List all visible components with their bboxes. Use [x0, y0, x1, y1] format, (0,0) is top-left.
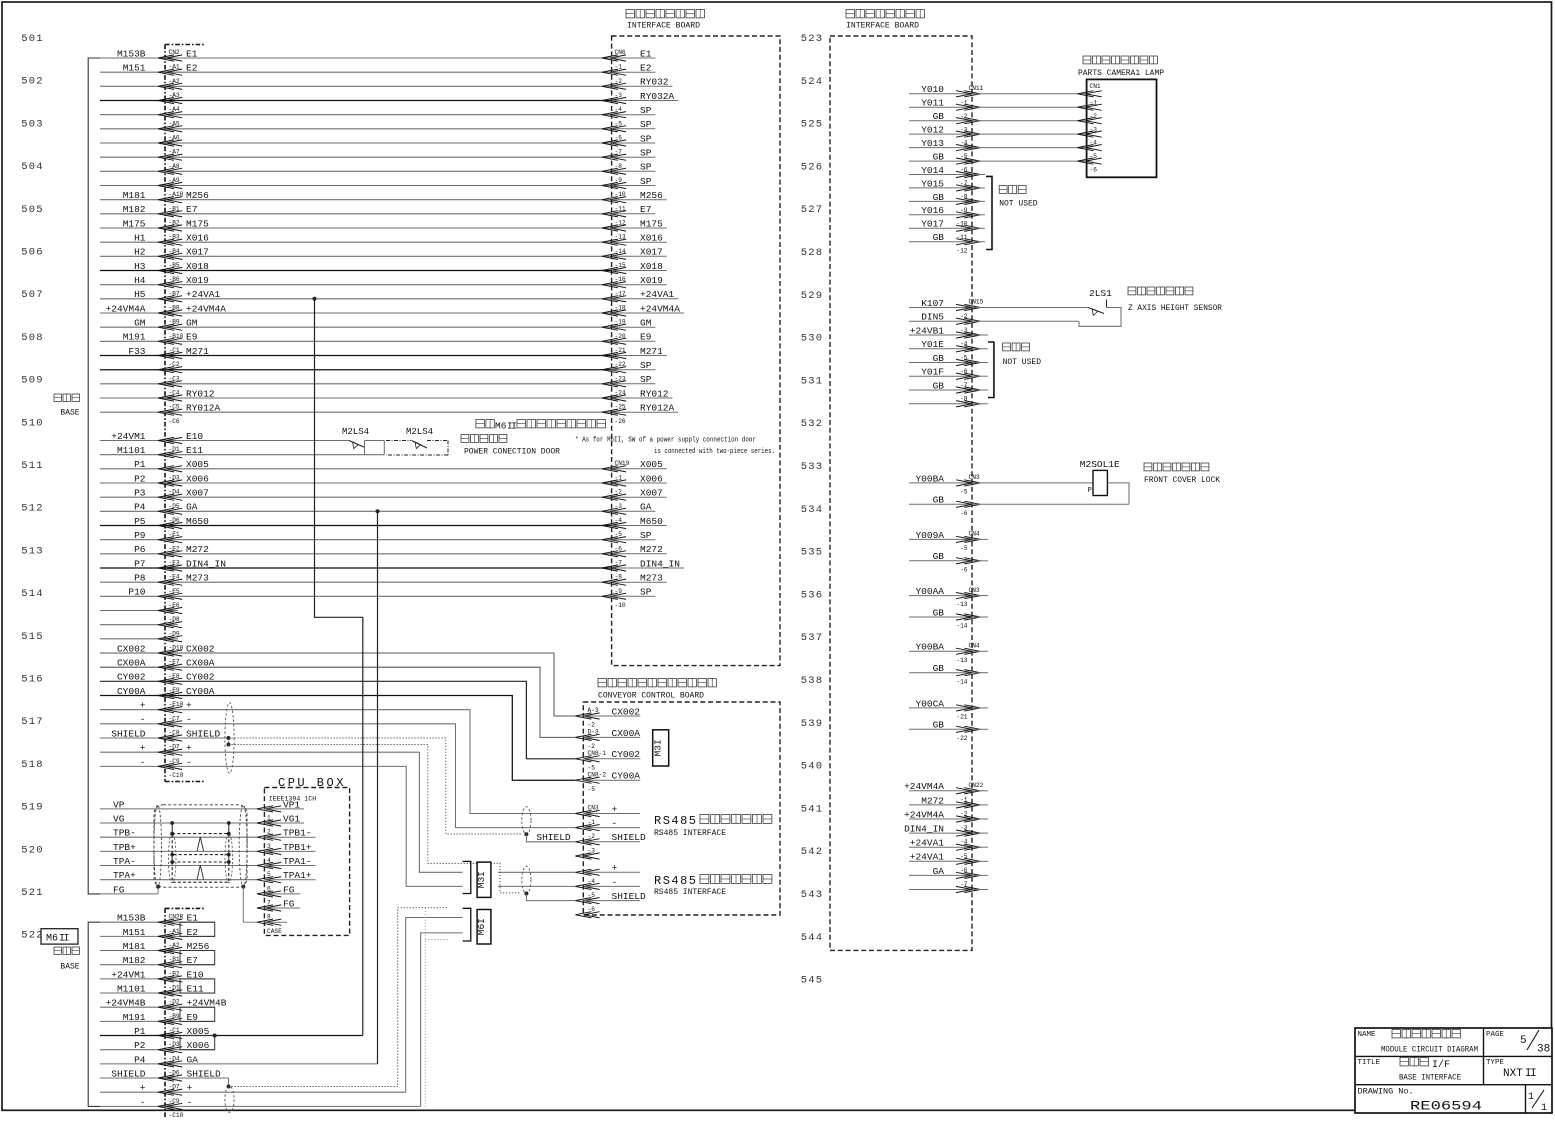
- svg-text:PAGE: PAGE: [1486, 1031, 1505, 1039]
- svg-text:1: 1: [267, 815, 271, 822]
- svg-text:+: +: [186, 743, 192, 754]
- svg-text:-26: -26: [615, 418, 626, 425]
- wire row 72: SHIELD CN2R-D7 SHIELD: [100, 1068, 229, 1090]
- wire row 69: P1 CN2R-D3 X005: [100, 1026, 363, 1048]
- twisted-pair capsule left: [154, 805, 162, 887]
- svg-text:P5: P5: [134, 516, 146, 527]
- svg-text:* As for M6II, SW of a power s: * As for M6II, SW of a power supply conn…: [575, 437, 756, 445]
- wire row 28: M1101 CN2-D1 / E11 return from door switch: [100, 445, 384, 458]
- svg-text:510: 510: [21, 417, 44, 429]
- shield tap verticals and dots: [170, 821, 230, 864]
- wire bus bracket (lower M6II base block): [88, 922, 100, 1106]
- twisted-pair capsule right: [239, 805, 247, 887]
- svg-text:502: 502: [21, 76, 44, 88]
- wire row 7: (nc) CN2-A8 -> CN6-8 SP: [100, 148, 655, 170]
- wire CX002: CN2 row 42 routed to conveyor board A-3: [100, 643, 575, 716]
- conveyor board pin A-3 (CX002): [575, 706, 640, 728]
- switch M2LS4 (second door switch for M6II, dash-dot): [386, 427, 448, 455]
- svg-text:-6: -6: [960, 566, 968, 573]
- wire row 21: F33 CN2-C2 -> CN6-22 M271: [100, 346, 667, 368]
- wire row 68: M191 CN2R-C1 E9: [100, 1012, 215, 1034]
- svg-text:P6: P6: [134, 544, 146, 555]
- svg-text:GB: GB: [933, 192, 945, 203]
- CPU pin 7 FG stub: [257, 898, 300, 911]
- wire row 6: (nc) CN2-A7 -> CN6-7 SP: [100, 133, 655, 155]
- wire IEEE1394 TPA- -> CPU pin 4: TPA1-: [100, 856, 316, 869]
- svg-text:GM: GM: [186, 318, 198, 329]
- svg-text:+: +: [140, 1083, 146, 1094]
- svg-text:P1: P1: [134, 1026, 146, 1037]
- twisted-pair shield capsule rows 46-50: [225, 703, 234, 774]
- svg-text:+24VA1: +24VA1: [910, 838, 945, 849]
- svg-text:-5: -5: [960, 489, 968, 496]
- svg-text:-2: -2: [588, 743, 596, 750]
- svg-text:507: 507: [21, 289, 44, 301]
- IEEE1394 cable shield dashed outline: [154, 805, 247, 887]
- svg-text:3: 3: [267, 843, 271, 850]
- svg-text:541: 541: [801, 803, 824, 815]
- svg-text:SHIELD: SHIELD: [111, 1068, 146, 1079]
- wire row 50: - (RS485-2 / M3I): [100, 757, 463, 887]
- svg-text:-5: -5: [588, 786, 596, 793]
- svg-text:-E7: -E7: [169, 659, 180, 666]
- svg-text:Y00CA: Y00CA: [915, 698, 944, 709]
- wire row 35: P6 CN2-E3 -> CN19-7 M272: [100, 544, 667, 566]
- svg-text:CN8-2: CN8-2: [588, 771, 607, 778]
- wire row 62: M151 CN2R-A2 E2: [100, 927, 215, 949]
- svg-text:M6: M6: [495, 421, 507, 432]
- svg-text:537: 537: [801, 632, 824, 644]
- svg-text:Y011: Y011: [921, 98, 944, 109]
- svg-text:P4: P4: [134, 1054, 146, 1065]
- svg-text:506: 506: [21, 247, 44, 259]
- parts camera 1 lamp label: [1078, 56, 1164, 78]
- jumper loop boxes (paired pins): [180, 922, 215, 1049]
- pin labels -C7..-C10 below rows 46-50: [169, 715, 184, 779]
- wire row 31: P3 CN2-D5 -> CN19-3 X007: [100, 488, 667, 510]
- svg-text:SHIELD: SHIELD: [186, 728, 221, 739]
- svg-text:M272: M272: [921, 795, 944, 806]
- svg-text:BASE: BASE: [60, 963, 79, 972]
- svg-text:SHIELD: SHIELD: [536, 832, 571, 843]
- twisted-pair capsule RS485-2: [522, 866, 531, 894]
- wire row 36: P7 CN2-E4 -> CN19-8 DIN4_IN: [100, 558, 684, 580]
- svg-text:II: II: [507, 421, 516, 432]
- svg-text:BASE INTERFACE: BASE INTERFACE: [1399, 1073, 1461, 1083]
- wire row 38: P10 CN2-E6 -> CN19-10 SP: [100, 587, 655, 609]
- svg-text:M3I: M3I: [476, 871, 487, 888]
- wire row 8: (nc) CN2-A9 -> CN6-9 SP: [100, 162, 655, 184]
- svg-text:CX002: CX002: [186, 643, 215, 654]
- wire IEEE1394 TPB- -> CPU pin 2: TPB1-: [100, 828, 316, 841]
- svg-text:M256: M256: [186, 190, 209, 201]
- svg-text:M2SOL1E: M2SOL1E: [1080, 459, 1120, 470]
- svg-text:X007: X007: [186, 488, 209, 499]
- svg-text:X019: X019: [186, 275, 209, 286]
- svg-text:Y012: Y012: [921, 125, 944, 136]
- svg-text:X018: X018: [186, 261, 209, 272]
- module mark M3I (conveyor CY feed): [653, 730, 669, 766]
- svg-text:BASE: BASE: [60, 409, 79, 418]
- svg-text:GB: GB: [933, 663, 945, 674]
- svg-text:525: 525: [801, 119, 824, 131]
- svg-text:H5: H5: [134, 289, 146, 300]
- svg-text:-D1: -D1: [169, 446, 180, 453]
- svg-text:527: 527: [801, 204, 824, 216]
- wire CY00A: CN2 row 45 routed to conveyor board CN8-2: [100, 686, 575, 780]
- wire row 71: P4 CN2R-D6 GA: [100, 1054, 378, 1076]
- svg-text:Y00BA: Y00BA: [915, 642, 944, 653]
- wire row 1: M151 CN2-A2 -> CN6-2 E2: [100, 63, 655, 85]
- svg-text:2: 2: [267, 829, 271, 836]
- svg-text:X017: X017: [186, 247, 209, 258]
- svg-text:531: 531: [801, 375, 824, 387]
- title block PAGE cell: [1486, 1030, 1550, 1056]
- svg-text:+24VM1: +24VM1: [111, 431, 146, 442]
- svg-text:518: 518: [21, 759, 44, 771]
- riser: CN2R + up to M3I/M6I row: [406, 918, 463, 1093]
- svg-text:-10: -10: [615, 602, 626, 609]
- svg-text:M2LS4: M2LS4: [342, 427, 369, 437]
- svg-text:RS485 INTERFACE: RS485 INTERFACE: [654, 829, 726, 838]
- svg-text:H2: H2: [134, 247, 146, 258]
- grid row numbers 501-522 (left column): [21, 33, 44, 942]
- svg-text:M181: M181: [123, 190, 146, 201]
- svg-text:-E8: -E8: [169, 673, 180, 680]
- svg-text:X005: X005: [186, 459, 209, 470]
- wire row 4: (nc) CN2-A5 -> CN6-5 SP: [100, 105, 655, 127]
- wire row 48: SHIELD (RS485-1): [100, 728, 229, 741]
- svg-text:M2LS4: M2LS4: [406, 427, 433, 437]
- M6I shield dotted tail to frame: [425, 908, 448, 1110]
- svg-text:CN3: CN3: [969, 474, 980, 481]
- svg-text:M182: M182: [123, 204, 146, 215]
- svg-text:E11: E11: [186, 445, 203, 456]
- wire row 23: (nc) CN2-C4 -> CN6-24 SP: [100, 374, 655, 396]
- svg-text:535: 535: [801, 547, 824, 559]
- svg-text:P4: P4: [134, 502, 146, 513]
- shield drain dotted route to RS485-2: [227, 738, 521, 893]
- title block TITLE cell: [1358, 1058, 1462, 1083]
- svg-text:1: 1: [1541, 1103, 1547, 1114]
- svg-text:NXT: NXT: [1503, 1068, 1523, 1080]
- svg-text:Y01F: Y01F: [921, 367, 944, 378]
- svg-text:Y00BA: Y00BA: [915, 473, 944, 484]
- svg-text:-C9: -C9: [169, 758, 180, 765]
- svg-text:CN1: CN1: [1090, 83, 1101, 90]
- title block DRAWING No cell: [1358, 1087, 1548, 1115]
- wire row 25: (nc) CN2-C6 -> CN6-26 RY012A: [100, 403, 678, 425]
- connector CN2R (M6II base, dash-dot header line): [164, 908, 166, 1119]
- svg-text:536: 536: [801, 589, 824, 601]
- svg-text:CN6: CN6: [615, 49, 626, 56]
- svg-text:501: 501: [21, 33, 44, 45]
- svg-text:+24VM4A: +24VM4A: [186, 303, 226, 314]
- wire row 30: P2 CN2-D4 -> CN19-2 X006: [100, 473, 667, 495]
- svg-text:M273: M273: [186, 573, 209, 584]
- wire row 61: M153B CN2R-A1 E1: [100, 913, 215, 935]
- svg-text:GB: GB: [933, 380, 945, 391]
- label: base (upper): [54, 394, 80, 418]
- svg-text:505: 505: [21, 204, 44, 216]
- svg-text:RS485: RS485: [654, 814, 698, 828]
- svg-text:-5: -5: [588, 764, 596, 771]
- svg-text:-C10: -C10: [169, 1112, 184, 1119]
- wire row 27: +24VM1 / E10 to door switch M2LS4: [100, 431, 349, 444]
- svg-text:DIN5: DIN5: [921, 312, 944, 323]
- conveyor control board dashed box: [583, 702, 780, 915]
- svg-text:+: +: [140, 743, 146, 754]
- label: M6II marker box: [41, 929, 78, 945]
- svg-text:DIN4_IN: DIN4_IN: [904, 824, 944, 835]
- svg-text:545: 545: [801, 975, 824, 987]
- wire row 39: spare CN2 pin (-D8 below): [100, 607, 182, 623]
- svg-text:M151: M151: [123, 927, 146, 938]
- svg-text:E10: E10: [186, 431, 203, 442]
- junction: GA tap on row 32: [376, 509, 380, 513]
- svg-text:CN8-1: CN8-1: [588, 750, 607, 757]
- svg-text:+24VM1: +24VM1: [111, 969, 146, 980]
- svg-text:+: +: [140, 700, 146, 711]
- connector CN4 group (spare): [909, 530, 988, 574]
- svg-text:542: 542: [801, 846, 824, 858]
- wire row 3: (nc) CN2-A4 -> CN6-4 RY032A: [100, 91, 678, 113]
- conveyor pins -4,-5,-6 (RS485-2): [575, 863, 646, 918]
- svg-text:Y010: Y010: [921, 84, 944, 95]
- conveyor control board label: [598, 679, 716, 701]
- wire row 17: H5 CN2-B8 -> CN6-18 +24VA1: [100, 289, 678, 311]
- svg-text:-13: -13: [956, 601, 967, 608]
- module mark M6I bracket+box: [463, 908, 491, 944]
- svg-text:-13: -13: [956, 657, 967, 664]
- svg-text:511: 511: [21, 460, 44, 472]
- svg-text:+24VM4A: +24VM4A: [106, 303, 146, 314]
- svg-text:P7: P7: [134, 558, 145, 569]
- svg-text:GB: GB: [933, 353, 945, 364]
- svg-text:GB: GB: [933, 720, 945, 731]
- svg-text:A-3: A-3: [588, 707, 599, 714]
- svg-text:CY002: CY002: [117, 672, 146, 683]
- pair shield box TPA: [172, 862, 229, 882]
- wire row 0: M153B CN2-A1 -> CN6-1 E1: [100, 48, 655, 70]
- svg-text:E9: E9: [186, 332, 198, 343]
- svg-text:+24VB1: +24VB1: [910, 325, 945, 336]
- svg-text:K107: K107: [921, 298, 944, 309]
- twist peaks: [197, 837, 204, 852]
- svg-text:P3: P3: [134, 488, 146, 499]
- connector pins -21/-22 (spare): [909, 698, 988, 742]
- svg-text:+: +: [187, 1083, 193, 1094]
- wire row 34: P9 CN2-E2 -> CN19-6 SP: [100, 530, 655, 552]
- wire row 29: P1 CN2-D3 -> CN19-1 X005: [100, 459, 667, 481]
- svg-text:521: 521: [21, 887, 44, 899]
- svg-text:2LS1: 2LS1: [1089, 288, 1112, 299]
- limit switch 2LS1 (Z axis height sensor): [1079, 288, 1121, 326]
- svg-text:+24VM4B: +24VM4B: [106, 998, 146, 1009]
- svg-text:534: 534: [801, 504, 824, 516]
- svg-text:DRAWING No.: DRAWING No.: [1358, 1087, 1414, 1097]
- connector CN11 group (parts camera lamp): [909, 84, 1087, 254]
- conveyor board pin CN8-2 (CY00A): [575, 771, 640, 793]
- svg-text:F33: F33: [128, 346, 145, 357]
- svg-text:I/F: I/F: [1432, 1059, 1450, 1071]
- svg-text:M175: M175: [123, 218, 146, 229]
- svg-text:513: 513: [21, 545, 44, 557]
- interface board #2 dashed box: [830, 36, 972, 950]
- twisted-pair capsule CN2R +/- pair: [225, 1086, 234, 1112]
- svg-text:P10: P10: [128, 587, 145, 598]
- svg-text:P: P: [1088, 487, 1092, 495]
- svg-text:538: 538: [801, 675, 824, 687]
- svg-text:7: 7: [267, 900, 271, 907]
- svg-text:M650: M650: [186, 516, 209, 527]
- svg-text:-E9: -E9: [169, 687, 180, 694]
- svg-text:CY00A: CY00A: [117, 686, 146, 697]
- label: power connection door (Japanese): [461, 435, 507, 443]
- svg-text:Y016: Y016: [921, 205, 944, 216]
- solenoid M2SOL1E (front cover lock): [1080, 459, 1129, 504]
- wire row 32: P4 CN2-D6 -> CN19-4 GA: [100, 502, 655, 524]
- svg-text:512: 512: [21, 503, 44, 515]
- svg-text:-: -: [140, 1097, 146, 1108]
- svg-text:M151: M151: [123, 63, 146, 74]
- wire row 64: M182 CN2R-B2 E7: [100, 955, 215, 977]
- svg-text:FRONT COVER LOCK: FRONT COVER LOCK: [1144, 476, 1220, 485]
- svg-text:SHIELD: SHIELD: [187, 1068, 222, 1079]
- title block outline: [1355, 1028, 1552, 1113]
- wire row 66: M1101 CN2R-D2 E11: [100, 983, 215, 1005]
- svg-text:M153B: M153B: [117, 48, 146, 59]
- svg-text:RS485 INTERFACE: RS485 INTERFACE: [654, 888, 726, 897]
- conveyor board pin CN8-1 (CY002): [575, 749, 640, 771]
- svg-text:-C6: -C6: [169, 418, 180, 425]
- svg-text:+: +: [186, 700, 192, 711]
- svg-text:INTERFACE BOARD: INTERFACE BOARD: [627, 21, 700, 31]
- svg-text:CN15: CN15: [969, 299, 984, 306]
- wire row 19: GM CN2-B10 -> CN6-20 GM: [100, 318, 655, 340]
- svg-text:M3I: M3I: [653, 739, 664, 756]
- svg-text:-D7: -D7: [169, 744, 180, 751]
- svg-text:E2: E2: [186, 63, 198, 74]
- connector CN15 group (Z axis height sensor): [909, 298, 1088, 407]
- Z axis height sensor label: [1128, 287, 1222, 313]
- svg-text:M191: M191: [123, 332, 146, 343]
- wire row 24: (nc) CN2-C5 -> CN6-25 RY012: [100, 388, 673, 410]
- svg-text:539: 539: [801, 718, 824, 730]
- RS485-2 wires after M3I mark: [498, 872, 576, 886]
- label RS485 interface (2): [654, 874, 772, 897]
- svg-text:Y017: Y017: [921, 219, 944, 230]
- svg-text:TITLE: TITLE: [1358, 1059, 1381, 1067]
- interface board #2 label: [846, 10, 924, 31]
- wire row 22: (nc) CN2-C3 -> CN6-23 SP: [100, 360, 655, 382]
- wire row 10: M181 CN2-B1 -> CN6-11 M256: [100, 190, 667, 212]
- svg-text:504: 504: [21, 161, 44, 173]
- connector CN22 group: [904, 781, 988, 892]
- svg-text:GB: GB: [933, 551, 945, 562]
- svg-text:-21: -21: [956, 714, 967, 721]
- svg-text:5: 5: [267, 871, 271, 878]
- wire IEEE1394 VG -> CPU pin 1: VG1: [100, 813, 304, 826]
- svg-text:M6: M6: [46, 934, 58, 945]
- svg-text:PARTS CAMERA1 LAMP: PARTS CAMERA1 LAMP: [1078, 69, 1164, 78]
- svg-text:FG: FG: [113, 884, 125, 895]
- wire row 63: M181 CN2R-B1 M256: [100, 941, 215, 963]
- svg-text:M1101: M1101: [117, 983, 146, 994]
- not used bracket (CN11 pins 7-12): [986, 176, 1038, 249]
- junction: X005 loop to riser: [213, 1034, 217, 1038]
- riser: +24VA1 row17 down to jog: [315, 299, 363, 1036]
- connector CN3 group (front cover lock): [909, 473, 1129, 517]
- svg-text:P1: P1: [134, 459, 146, 470]
- svg-text:-: -: [186, 714, 192, 725]
- svg-text:CN3: CN3: [588, 805, 599, 812]
- svg-text:Y013: Y013: [921, 138, 944, 149]
- pair capsule TPB/TPA right: [225, 833, 233, 883]
- connector CN4 group pins -13/-14 (spare): [909, 642, 988, 686]
- svg-text:X016: X016: [186, 233, 209, 244]
- svg-text:CN22: CN22: [969, 782, 984, 789]
- svg-text:GM: GM: [134, 318, 146, 329]
- svg-text:GB: GB: [933, 495, 945, 506]
- conveyor board pin D-3 (CX00A): [575, 728, 640, 750]
- svg-text:-14: -14: [956, 623, 967, 630]
- svg-text:H1: H1: [134, 233, 146, 244]
- svg-text:529: 529: [801, 290, 824, 302]
- wire row 33: P5 CN2-E1 -> CN19-5 M650: [100, 516, 667, 538]
- note: As for M6II SW of a power supply connection door: [575, 437, 775, 457]
- junction: +24VA1 tap on row 17: [313, 297, 317, 301]
- svg-text:GB: GB: [933, 111, 945, 122]
- connector CN3 group pins -13/-14 (spare): [909, 586, 988, 630]
- svg-text:6: 6: [267, 885, 271, 892]
- svg-text:Y01E: Y01E: [921, 339, 944, 350]
- svg-text:532: 532: [801, 418, 824, 430]
- svg-text:TPA+: TPA+: [113, 870, 136, 881]
- svg-text:-: -: [140, 714, 146, 725]
- svg-text:CASE: CASE: [267, 928, 282, 935]
- svg-text:CN19: CN19: [615, 460, 630, 467]
- wire row 16: H4 CN2-B7 -> CN6-17 X019: [100, 275, 667, 297]
- svg-text:VG: VG: [113, 813, 125, 824]
- svg-text:517: 517: [21, 716, 44, 728]
- svg-text:-6: -6: [960, 510, 968, 517]
- title block NAME cell: [1358, 1030, 1479, 1055]
- svg-text:Y014: Y014: [921, 165, 944, 176]
- wire row 70: P2 CN2R-D4 X006: [100, 1040, 215, 1062]
- svg-text:RY012: RY012: [186, 388, 215, 399]
- svg-text:CN4: CN4: [969, 531, 980, 538]
- svg-text:Y009A: Y009A: [915, 530, 944, 541]
- svg-text:526: 526: [801, 161, 824, 173]
- wire row 65: +24VM1 CN2R-D1 E10: [100, 969, 215, 991]
- svg-text:H4: H4: [134, 275, 146, 286]
- svg-text:RS485: RS485: [654, 874, 698, 888]
- wire row 11: M182 CN2-B2 -> CN6-12 E7: [100, 204, 655, 226]
- wire IEEE1394 TPB+ -> CPU pin 3: TPB1+: [100, 842, 316, 855]
- svg-text:GB: GB: [933, 152, 945, 163]
- svg-text:CONVEYOR CONTROL BOARD: CONVEYOR CONTROL BOARD: [598, 691, 704, 701]
- svg-text:MODULE CIRCUIT DIAGRAM: MODULE CIRCUIT DIAGRAM: [1381, 1045, 1478, 1055]
- switch M2LS4 (power connection door): [342, 427, 384, 455]
- svg-text:CX00A: CX00A: [186, 658, 215, 669]
- svg-text:38: 38: [1537, 1044, 1550, 1056]
- wire row 73: + CN2R-C9 +: [100, 1083, 406, 1105]
- svg-text:-6: -6: [1090, 167, 1098, 174]
- svg-text:GB: GB: [933, 607, 945, 618]
- svg-text:RY012A: RY012A: [186, 403, 221, 414]
- svg-text:H3: H3: [134, 261, 146, 272]
